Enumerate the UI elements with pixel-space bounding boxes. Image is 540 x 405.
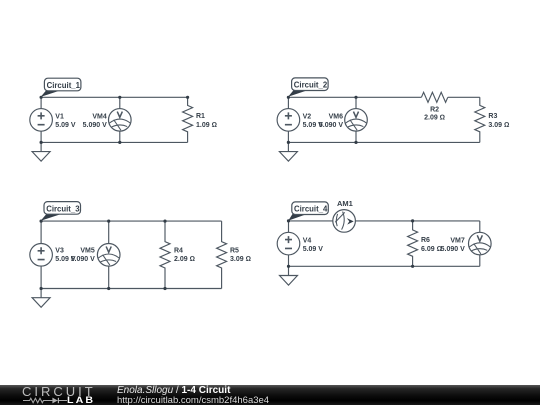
wire: V3 top lead (40, 221, 42, 244)
ammeter AM1 (333, 210, 356, 233)
ground circuit 1 (32, 142, 50, 161)
svg-text:VM6: VM6 (329, 114, 344, 121)
wire: circuit 4 top rail right (355, 220, 480, 222)
voltage source V4 (277, 232, 300, 255)
voltage source V1 (30, 109, 53, 132)
voltmeter VM7 (469, 232, 492, 255)
svg-text:5.09 V: 5.09 V (303, 246, 324, 253)
wire: circuit 4 top rail left (289, 220, 334, 222)
svg-text:6.09 Ω: 6.09 Ω (421, 246, 442, 253)
ground circuit 2 (279, 142, 297, 161)
logo resistor-diode squiggle (22, 395, 68, 405)
svg-text:3.09 Ω: 3.09 Ω (488, 122, 509, 129)
ground circuit 3 (32, 289, 50, 308)
resistor R3 (475, 97, 485, 142)
svg-text:R2: R2 (430, 106, 439, 113)
node dot c3 R4 top (163, 220, 166, 223)
svg-text:VM7: VM7 (450, 237, 465, 244)
resistor R2 (421, 92, 447, 102)
resistor R4 (160, 221, 170, 288)
svg-text:Circuit_4: Circuit_4 (294, 205, 328, 214)
wire: VM4 top lead (119, 97, 121, 108)
wire: V1 bottom lead (40, 131, 42, 142)
wire: V1 top lead (40, 97, 42, 108)
wire: VM5 bottom lead (108, 266, 110, 288)
node dot c1 bottom-left (40, 141, 43, 144)
svg-text:1.09 Ω: 1.09 Ω (196, 122, 217, 129)
svg-text:5.090 V: 5.090 V (83, 122, 107, 129)
svg-text:2.09 Ω: 2.09 Ω (174, 256, 195, 263)
wire: circuit 3 top rail (41, 220, 222, 222)
resistor R1 (183, 97, 193, 142)
wire: V3 bottom lead (40, 266, 42, 288)
node dot c3 VM5 bottom (107, 287, 110, 290)
voltmeter VM5 (97, 244, 120, 267)
wire: circuit 2 top rail left (288, 96, 421, 98)
node dot c3 VM5 top (107, 220, 110, 223)
logo CIRCUIT (22, 385, 96, 398)
wire: VM6 bottom lead (355, 131, 357, 142)
node dot c4 top-left (287, 219, 290, 222)
ground circuit 4 (280, 266, 298, 285)
voltage source V3 (30, 244, 53, 267)
svg-text:R1: R1 (196, 113, 205, 120)
svg-text:R6: R6 (421, 237, 430, 244)
node dot c3 bottom-left (40, 287, 43, 290)
node label Circuit_3 (41, 202, 81, 221)
node label Circuit_4 (288, 202, 328, 221)
node dot c2 VM6 bottom (354, 141, 357, 144)
svg-text:V2: V2 (303, 114, 312, 121)
wire: V4 top lead (288, 221, 290, 233)
node dot c2 bottom-left (287, 141, 290, 144)
svg-text:5.090 V: 5.090 V (71, 256, 95, 263)
wire: VM4 bottom lead (119, 131, 121, 142)
wire: circuit 1 bottom rail (41, 141, 188, 143)
svg-text:R5: R5 (230, 248, 239, 255)
svg-text:R4: R4 (174, 248, 183, 255)
svg-text:5.090 V: 5.090 V (441, 246, 465, 253)
svg-text:Circuit_3: Circuit_3 (46, 204, 80, 213)
node dot c1 VM4 top (118, 96, 121, 99)
node dot c1 top-left (40, 96, 43, 99)
wire: circuit 2 top rail right (448, 96, 480, 98)
svg-text:Circuit_1: Circuit_1 (47, 81, 81, 90)
svg-text:5.09 V: 5.09 V (55, 122, 76, 129)
svg-text:5.090 V: 5.090 V (319, 122, 343, 129)
svg-text:V3: V3 (55, 248, 64, 255)
svg-text:2.09 Ω: 2.09 Ω (424, 115, 445, 122)
node dot c2 top-left (287, 96, 290, 99)
wire: VM6 top lead (355, 97, 357, 108)
resistor R5 (217, 221, 227, 288)
node dot c4 R6 top (411, 219, 414, 222)
wire: V4 bottom lead (288, 255, 290, 266)
node dot c4 R6 bottom (411, 265, 414, 268)
node dot c3 top-left (40, 220, 43, 223)
wire: VM5 top lead (108, 221, 110, 244)
node dot c1 R1 top (186, 96, 189, 99)
wire: V2 bottom lead (287, 131, 289, 142)
wire: circuit 2 bottom rail (288, 141, 479, 143)
node dot c1 VM4 bottom (118, 141, 121, 144)
voltage source V2 (277, 109, 300, 132)
resistor R6 (408, 221, 418, 266)
node label Circuit_2 (288, 78, 328, 97)
node dot c3 R4 bottom (163, 287, 166, 290)
attribution line (117, 386, 230, 396)
footer bar (0, 385, 540, 405)
node dot c4 bottom-left (287, 265, 290, 268)
svg-text:VM4: VM4 (92, 114, 107, 121)
svg-text:AM1: AM1 (337, 199, 353, 208)
node dot c2 VM6 top (354, 96, 357, 99)
wire: circuit 4 bottom rail (289, 265, 480, 267)
svg-text:R3: R3 (488, 113, 497, 120)
voltmeter VM6 (345, 109, 368, 132)
wire: V2 top lead (287, 97, 289, 108)
svg-text:V1: V1 (55, 114, 64, 121)
logo LAB (67, 396, 95, 405)
node label Circuit_1 (41, 78, 81, 97)
wire: VM7 bottom lead (479, 255, 481, 266)
svg-text:Circuit_2: Circuit_2 (294, 81, 328, 90)
wire: circuit 3 bottom rail (41, 288, 222, 290)
svg-text:V4: V4 (303, 237, 312, 244)
wire: circuit 1 top rail (41, 96, 188, 98)
svg-text:VM5: VM5 (80, 248, 95, 255)
url line (117, 396, 269, 405)
svg-text:3.09 Ω: 3.09 Ω (230, 256, 251, 263)
wire: VM7 top lead (479, 221, 481, 233)
voltmeter VM4 (109, 109, 132, 132)
